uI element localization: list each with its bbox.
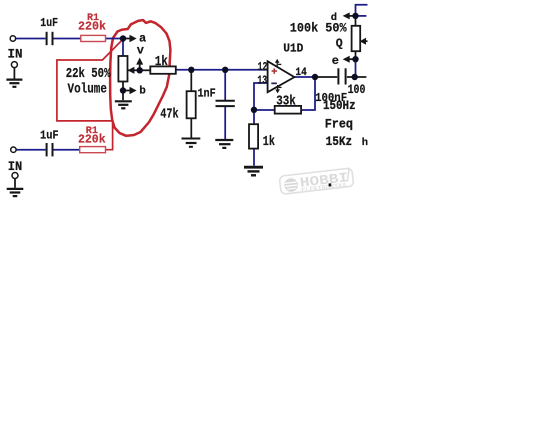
- svg-text:b: b: [139, 86, 146, 98]
- svg-text:v: v: [137, 44, 144, 58]
- svg-text:220k: 220k: [78, 132, 106, 146]
- svg-text:22k 50%: 22k 50%: [66, 67, 112, 82]
- svg-text:e: e: [332, 54, 339, 68]
- svg-text:100k 50%: 100k 50%: [290, 20, 347, 35]
- svg-text:47k: 47k: [160, 107, 178, 122]
- svg-text:150Hz: 150Hz: [323, 98, 356, 113]
- svg-text:12: 12: [258, 61, 268, 74]
- svg-text:1k: 1k: [155, 55, 168, 70]
- svg-text:1uF: 1uF: [40, 17, 58, 30]
- svg-text:IN: IN: [8, 48, 23, 62]
- svg-text:U1D: U1D: [283, 42, 303, 55]
- svg-text:1k: 1k: [263, 135, 275, 150]
- svg-text:13: 13: [257, 74, 267, 87]
- svg-text:Volume: Volume: [68, 82, 107, 98]
- svg-text:1uF: 1uF: [40, 129, 59, 142]
- svg-text:Q: Q: [336, 38, 343, 51]
- svg-text:1nF: 1nF: [198, 88, 216, 101]
- svg-text:15Kz: 15Kz: [326, 134, 353, 149]
- svg-text:Freq: Freq: [325, 116, 353, 131]
- svg-text:h: h: [362, 137, 368, 149]
- svg-text:220k: 220k: [78, 20, 106, 34]
- svg-text:14: 14: [295, 67, 307, 79]
- svg-text:33k: 33k: [276, 95, 296, 110]
- svg-text:100: 100: [348, 83, 366, 97]
- svg-text:IN: IN: [8, 160, 22, 174]
